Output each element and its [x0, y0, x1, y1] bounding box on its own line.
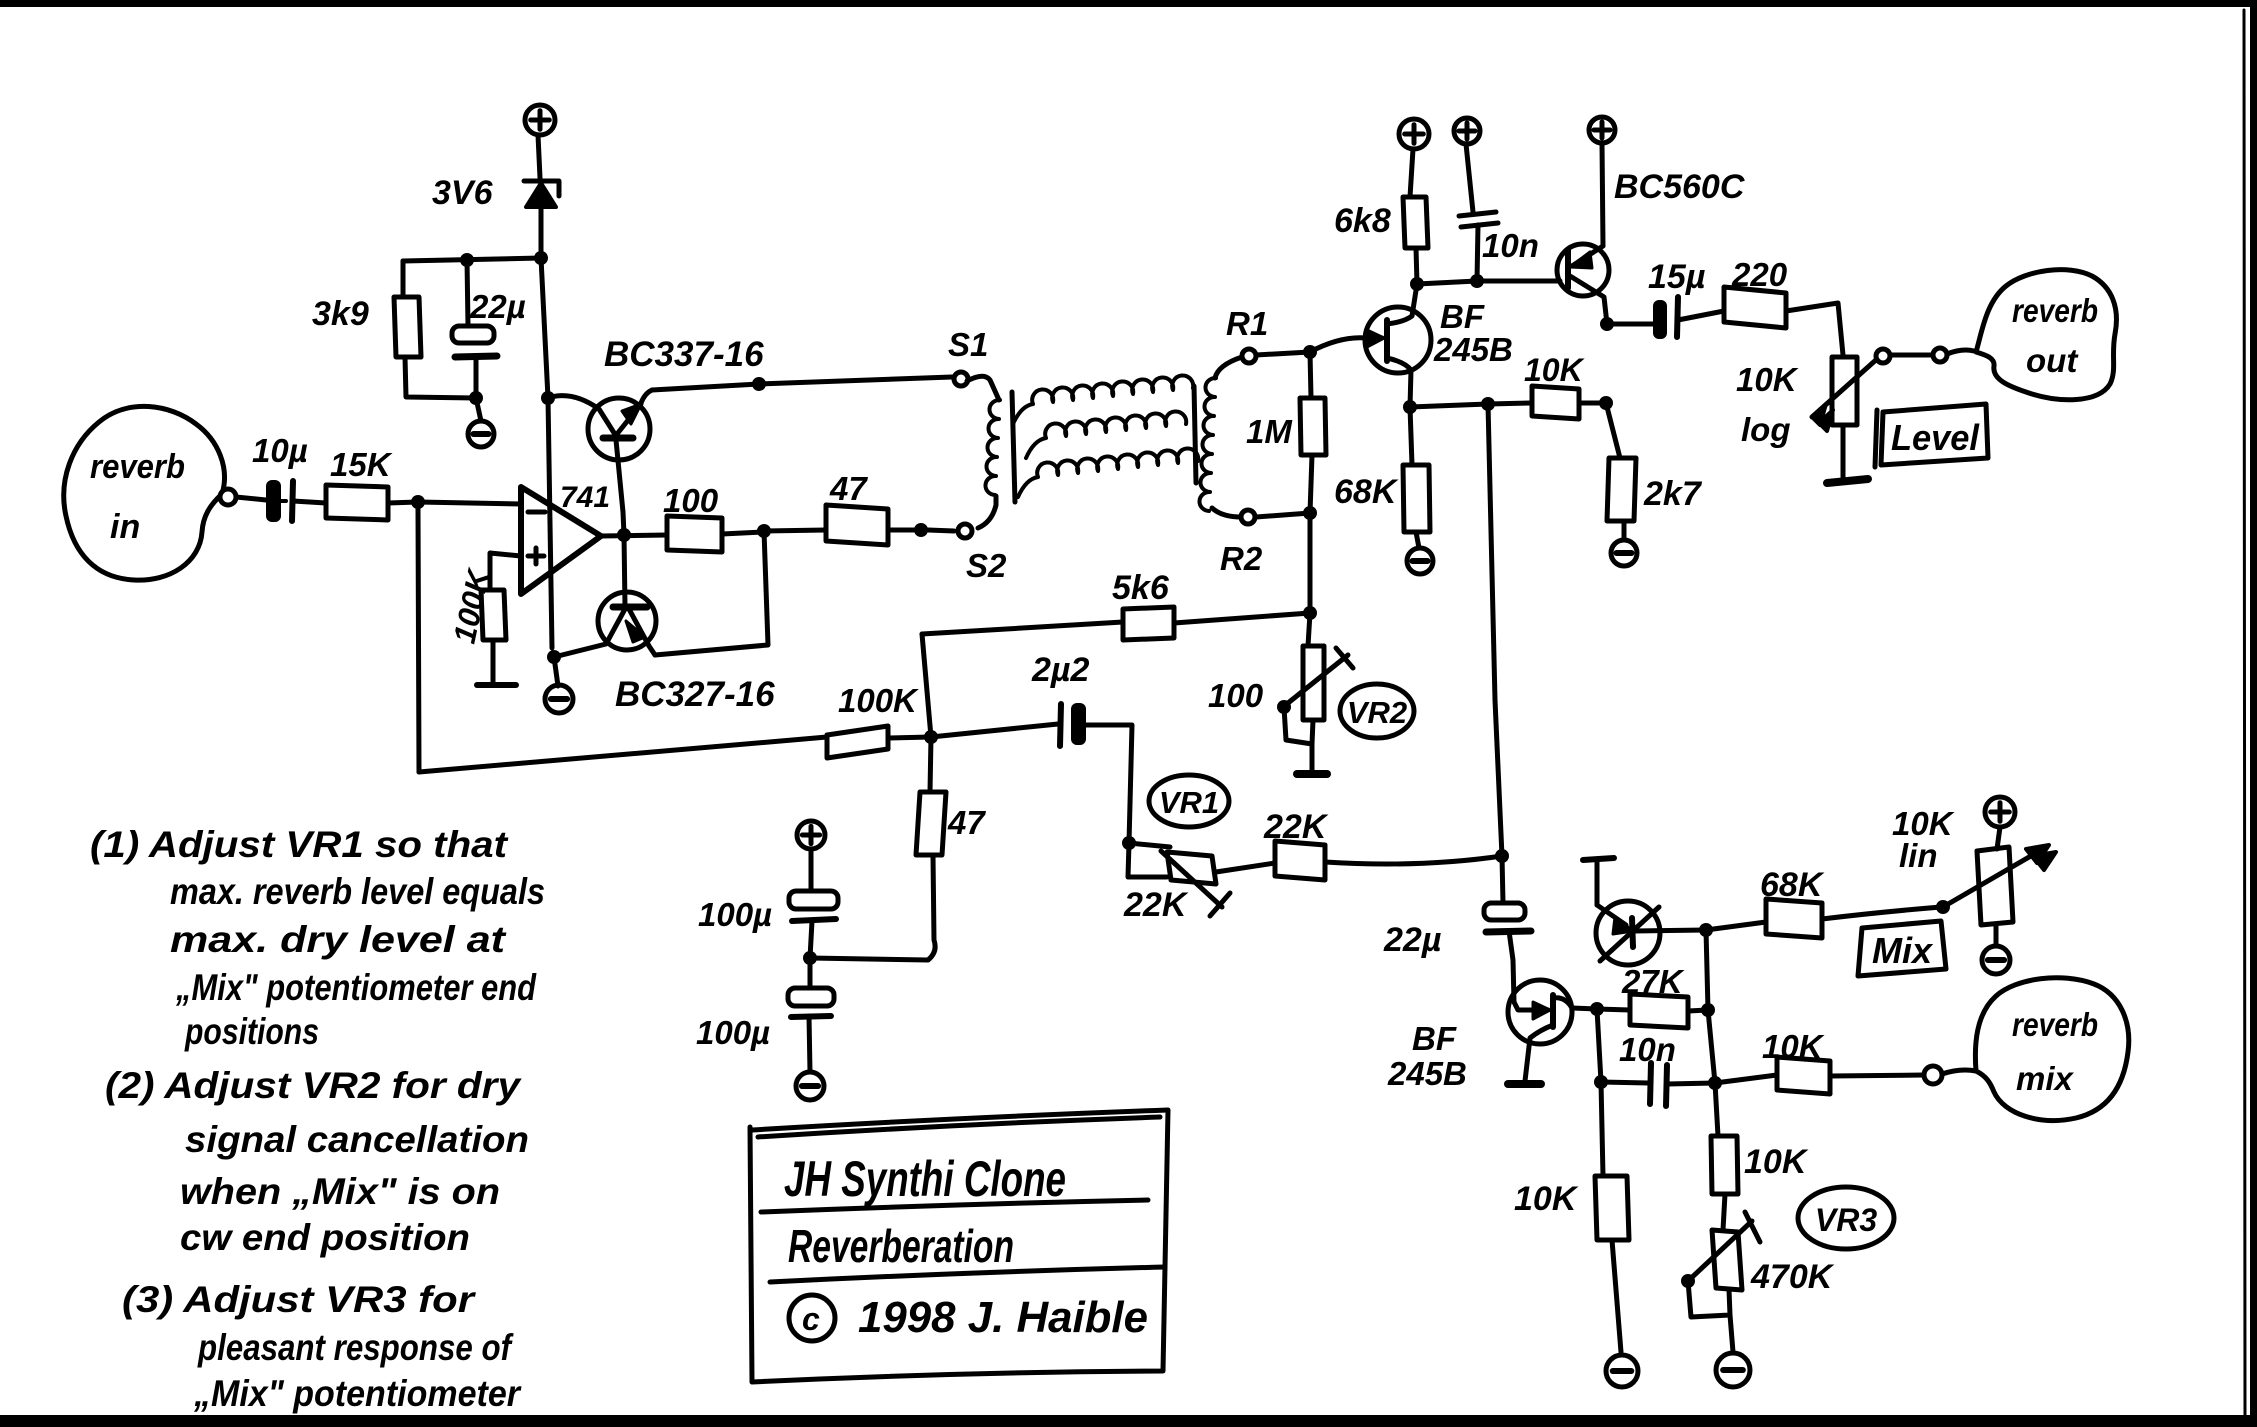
node U	[803, 951, 817, 965]
svg-text:10n: 10n	[1619, 1031, 1676, 1068]
svg-text:68K: 68K	[1334, 473, 1399, 511]
node C	[469, 391, 483, 405]
wire	[1706, 930, 1715, 1083]
ground	[1606, 1355, 1638, 1387]
svg-text:(3) Adjust VR3 for: (3) Adjust VR3 for	[122, 1279, 477, 1320]
svg-text:10K: 10K	[1524, 352, 1586, 388]
svg-text:47: 47	[947, 804, 986, 841]
resistor R 10K (gnd leg 2)	[1711, 1083, 1809, 1230]
power +V	[525, 105, 555, 178]
svg-text:6k8: 6k8	[1334, 202, 1391, 240]
node W	[1495, 849, 1509, 863]
transistor Q3 BF245B	[1365, 284, 1513, 407]
resistor R 27K	[1597, 963, 1708, 1028]
svg-text:signal cancellation: signal cancellation	[185, 1119, 529, 1160]
svg-text:S1: S1	[948, 326, 988, 363]
resistor R 2k7	[1606, 403, 1703, 540]
node Q	[1481, 397, 1495, 411]
svg-text:R2: R2	[1220, 540, 1263, 577]
svg-text:(2) Adjust VR2 for dry: (2) Adjust VR2 for dry	[105, 1065, 523, 1106]
resistor R 15K	[326, 446, 418, 520]
svg-text:245B: 245B	[1387, 1055, 1467, 1092]
trimmer VR3 470K	[1681, 1212, 1835, 1352]
ground	[1407, 548, 1433, 574]
terminal R2	[1220, 510, 1263, 577]
svg-text:„Mix" potentiometer end: „Mix" potentiometer end	[175, 967, 537, 1008]
node X	[1590, 1002, 1604, 1016]
node R	[1599, 396, 1613, 410]
svg-text:22K: 22K	[1263, 808, 1329, 846]
svg-text:BF: BF	[1412, 1020, 1457, 1057]
ground	[1827, 479, 1868, 483]
capacitor C 10n (mix)	[1601, 1031, 1715, 1106]
node I	[757, 524, 771, 538]
wire	[548, 398, 552, 648]
wire	[419, 737, 827, 772]
title box	[750, 1110, 1168, 1382]
svg-text:15µ: 15µ	[1648, 258, 1705, 296]
transformer spring coil 2	[1026, 411, 1186, 458]
resistor R 47 (drive)	[764, 470, 921, 545]
svg-text:10n: 10n	[1482, 227, 1539, 264]
node AA	[1936, 900, 1950, 914]
wire	[652, 384, 759, 390]
svg-text:10K: 10K	[1514, 1180, 1579, 1218]
node N	[1410, 277, 1477, 291]
svg-text:R1: R1	[1226, 305, 1268, 342]
terminal R1	[1226, 305, 1268, 363]
wire	[1256, 352, 1310, 355]
ground	[468, 398, 494, 447]
power +V	[797, 821, 825, 849]
svg-text:BC327-16: BC327-16	[615, 675, 775, 714]
wire	[1890, 353, 1932, 358]
transistor Q1 BC337-16	[548, 335, 764, 535]
resistor R 1M	[1246, 352, 1326, 513]
label Mix box	[1858, 921, 1946, 976]
node B	[403, 251, 548, 267]
transformer reverb tank primary	[967, 376, 1000, 528]
note text block	[90, 824, 545, 1414]
node G (741 out)	[601, 528, 667, 542]
wire	[1310, 338, 1366, 352]
node V	[1122, 836, 1136, 850]
svg-text:VR2: VR2	[1347, 695, 1407, 730]
svg-text:47: 47	[829, 470, 868, 507]
svg-text:mix: mix	[2016, 1060, 2075, 1097]
svg-text:10K: 10K	[1762, 1028, 1825, 1065]
zener D1 3V6	[432, 174, 559, 258]
resistor R 10K (gnd leg 1)	[1514, 1082, 1629, 1352]
svg-text:BC560C: BC560C	[1614, 168, 1745, 206]
terminal S1	[948, 326, 988, 386]
node M	[1303, 606, 1317, 620]
svg-text:10K: 10K	[1744, 1143, 1809, 1181]
svg-text:cw end position: cw end position	[180, 1217, 470, 1258]
ground	[1716, 1353, 1750, 1387]
svg-text:1998 J. Haible: 1998 J. Haible	[858, 1293, 1148, 1342]
svg-text:S2: S2	[966, 547, 1007, 584]
svg-text:reverb: reverb	[2012, 1006, 2098, 1043]
terminal reverb mix	[1924, 1066, 1976, 1084]
node reverb-mix bubble	[1975, 978, 2128, 1121]
svg-text:2µ2: 2µ2	[1031, 651, 1089, 689]
svg-text:100µ: 100µ	[696, 1014, 770, 1051]
ground	[477, 682, 516, 688]
wire	[541, 258, 548, 398]
capacitor C 100u (lower)	[696, 958, 834, 1072]
resistor R 3k9	[312, 261, 476, 398]
svg-text:when „Mix" is on: when „Mix" is on	[180, 1171, 500, 1212]
svg-text:positions: positions	[184, 1011, 319, 1052]
transformer core	[1012, 386, 1196, 502]
svg-text:lin: lin	[1899, 837, 1938, 874]
wire	[418, 509, 419, 772]
transistor Q2 BC327-16	[554, 535, 775, 714]
svg-text:out: out	[2026, 342, 2079, 379]
node J	[914, 523, 954, 537]
capacitor C 2u2	[931, 651, 1132, 843]
label VR2	[1340, 684, 1414, 738]
svg-text:max. reverb level equals: max. reverb level equals	[170, 871, 545, 912]
power +V	[1399, 119, 1429, 149]
label Level box	[1875, 404, 1988, 467]
ground	[545, 657, 573, 713]
svg-text:10K: 10K	[1736, 361, 1799, 398]
svg-text:100: 100	[1208, 677, 1264, 714]
svg-text:reverb: reverb	[2012, 292, 2098, 329]
svg-text:22K: 22K	[1123, 886, 1189, 924]
svg-text:JH Synthi Clone: JH Synthi Clone	[784, 1151, 1066, 1207]
node L	[1303, 506, 1317, 520]
wire	[922, 634, 931, 737]
wire	[1488, 404, 1502, 856]
svg-text:470K: 470K	[1750, 1258, 1835, 1296]
svg-text:22µ: 22µ	[1383, 921, 1441, 959]
svg-text:100µ: 100µ	[698, 896, 772, 933]
resistor R 100	[663, 482, 764, 552]
wire	[1308, 513, 1313, 613]
capacitor C1 10u	[252, 432, 326, 522]
svg-text:BF: BF	[1440, 298, 1485, 335]
svg-text:(1) Adjust VR1 so that: (1) Adjust VR1 so that	[90, 824, 509, 865]
svg-text:reverb: reverb	[90, 448, 185, 486]
power +V	[1985, 797, 2015, 827]
svg-text:c: c	[802, 1301, 820, 1337]
svg-text:27K: 27K	[1621, 963, 1685, 1000]
svg-text:10µ: 10µ	[252, 432, 308, 469]
capacitor C 22u	[452, 260, 526, 398]
label VR1	[1149, 775, 1229, 827]
svg-text:BC337-16: BC337-16	[604, 335, 764, 374]
op-amp U1 741	[490, 481, 610, 594]
potentiometer 10K log	[1736, 349, 1890, 477]
resistor R 5k6	[922, 569, 1310, 640]
resistor R 220	[1724, 256, 1843, 355]
node Z	[1699, 923, 1713, 937]
transistor Q5 BF245B	[1387, 980, 1572, 1092]
svg-text:pleasant response of: pleasant response of	[197, 1327, 514, 1368]
svg-text:3k9: 3k9	[312, 295, 369, 333]
svg-text:100K: 100K	[447, 564, 497, 646]
resistor R 68K (mix)	[1706, 866, 1941, 938]
node reverb-out bubble	[1976, 270, 2116, 400]
node Y	[1594, 1075, 1608, 1089]
resistor R 10K (mix out)	[1715, 1028, 1924, 1094]
node D	[541, 391, 555, 405]
svg-text:741: 741	[560, 481, 610, 514]
capacitor C 10n	[1459, 144, 1539, 281]
resistor R 6k8	[1334, 149, 1428, 284]
node O	[1470, 274, 1560, 288]
terminal S2	[958, 524, 1007, 584]
resistor R 100K (+input)	[447, 564, 506, 683]
terminal reverb in	[220, 489, 266, 505]
resistor R 22K	[1216, 808, 1502, 880]
wire	[759, 377, 952, 384]
transistor Q4 BC560C	[1557, 143, 1745, 324]
svg-text:1M: 1M	[1246, 413, 1293, 450]
svg-text:100K: 100K	[838, 682, 919, 719]
node reverb-in bubble	[64, 406, 225, 580]
resistor R 100K (feedback)	[827, 682, 931, 758]
svg-text:245B: 245B	[1433, 331, 1513, 368]
svg-text:3V6: 3V6	[432, 174, 494, 212]
node A	[411, 495, 425, 509]
svg-text:VR3: VR3	[1815, 1202, 1877, 1238]
wire	[1597, 1009, 1601, 1082]
capacitor C 100u (upper)	[698, 849, 838, 958]
node P	[1600, 317, 1653, 331]
node F	[752, 377, 766, 391]
node H	[547, 650, 561, 664]
wire	[655, 531, 768, 655]
transformer secondary	[1199, 357, 1242, 517]
transformer spring coil 1	[1013, 375, 1193, 424]
resistor R 10K (source)	[1410, 352, 1606, 419]
transformer spring coil 3	[1018, 448, 1198, 497]
svg-text:„Mix" potentiometer: „Mix" potentiometer	[193, 1373, 522, 1414]
svg-text:log: log	[1741, 411, 1790, 448]
wire	[1572, 1008, 1597, 1009]
svg-text:VR1: VR1	[1159, 785, 1219, 820]
ground	[1611, 540, 1637, 566]
terminal reverb out	[1933, 348, 1974, 362]
svg-text:max. dry level at: max. dry level at	[170, 919, 507, 960]
label VR3	[1798, 1187, 1894, 1249]
potentiometer 10K lin	[1892, 805, 2056, 945]
node K	[1303, 345, 1317, 359]
ground	[1508, 1080, 1541, 1088]
node S	[1403, 400, 1417, 414]
resistor R 68K	[1334, 407, 1430, 548]
svg-text:5k6: 5k6	[1112, 569, 1170, 607]
power +V	[1454, 118, 1480, 144]
svg-text:2k7: 2k7	[1643, 475, 1703, 513]
capacitor C 15u	[1648, 258, 1724, 339]
trimmer VR1 22K	[1123, 843, 1230, 924]
trimmer VR2 100	[1208, 613, 1353, 774]
power +V	[1589, 117, 1615, 143]
svg-text:220: 220	[1731, 256, 1788, 293]
svg-text:15K: 15K	[330, 446, 393, 483]
svg-text:100: 100	[663, 482, 719, 519]
transistor Q6	[1583, 858, 1706, 965]
ground	[796, 1072, 824, 1100]
svg-text:Mix: Mix	[1872, 930, 1934, 971]
wire	[418, 502, 521, 504]
node T	[924, 730, 938, 744]
node AC	[1708, 1076, 1722, 1090]
svg-text:in: in	[110, 508, 140, 546]
resistor R 47 (bias)	[810, 737, 986, 960]
svg-text:Reverberation: Reverberation	[788, 1220, 1014, 1272]
svg-text:Level: Level	[1891, 417, 1980, 458]
capacitor C 22u (mix)	[1383, 856, 1531, 1002]
svg-text:22µ: 22µ	[469, 288, 526, 325]
svg-text:68K: 68K	[1760, 866, 1825, 904]
node AB	[1701, 1003, 1715, 1017]
ground	[1982, 946, 2010, 974]
wire	[1256, 513, 1310, 517]
